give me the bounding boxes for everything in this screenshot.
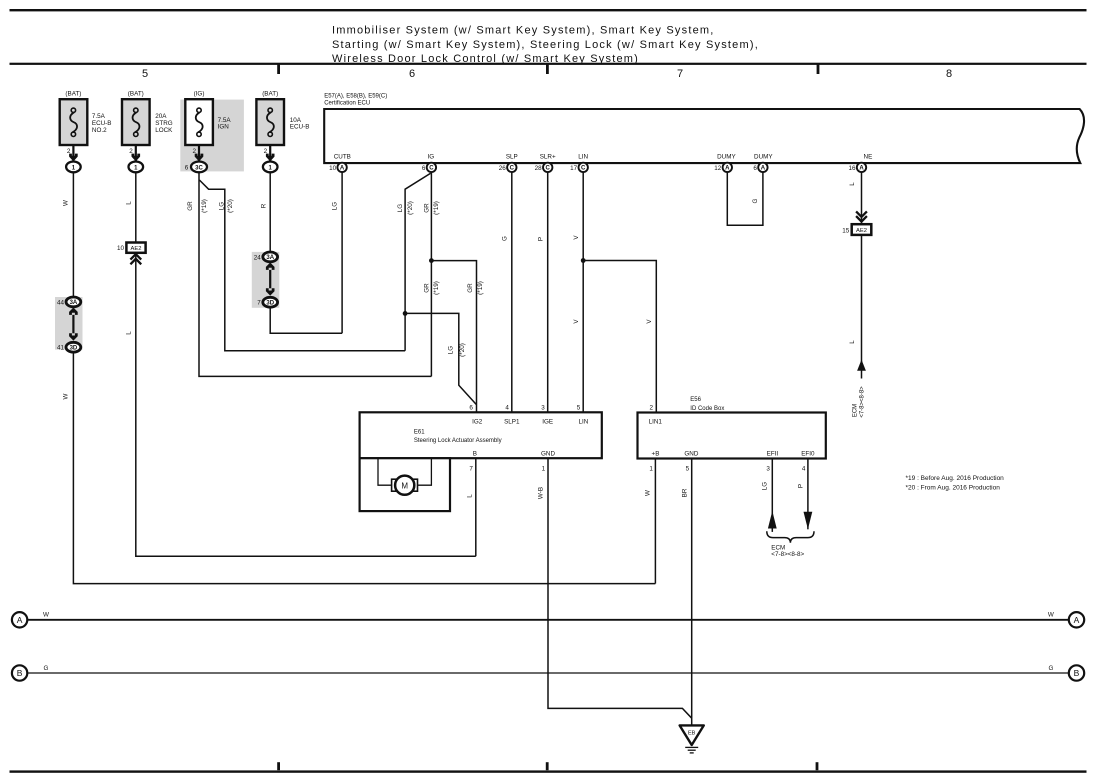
svg-text:B: B bbox=[473, 450, 477, 457]
page top border bbox=[10, 9, 1087, 11]
svg-text:LIN: LIN bbox=[578, 154, 588, 161]
svg-text:(*19): (*19) bbox=[477, 281, 484, 295]
grid ruler bbox=[10, 63, 1087, 80]
wire LG from E56 EFII pin 3 to ECM bbox=[762, 459, 777, 532]
svg-text:G: G bbox=[44, 665, 49, 672]
svg-text:A: A bbox=[859, 166, 864, 172]
svg-text:*20 : From Aug. 2016 Productio: *20 : From Aug. 2016 Production bbox=[906, 485, 1001, 492]
svg-text:LG: LG bbox=[448, 346, 455, 355]
svg-text:10: 10 bbox=[117, 245, 125, 252]
svg-text:(BAT): (BAT) bbox=[65, 91, 81, 98]
svg-text:P: P bbox=[797, 484, 804, 488]
svg-text:G: G bbox=[501, 236, 508, 241]
svg-text:7: 7 bbox=[677, 68, 683, 80]
fuse F3 7.5A IGN (IG) bbox=[185, 91, 231, 145]
svg-text:W: W bbox=[1048, 612, 1054, 619]
svg-text:IG: IG bbox=[427, 154, 434, 161]
svg-text:GR: GR bbox=[423, 203, 430, 213]
svg-text:(*19): (*19) bbox=[201, 199, 208, 213]
svg-text:16: 16 bbox=[848, 165, 856, 172]
svg-text:W: W bbox=[63, 393, 70, 399]
E56 pin labels bbox=[649, 405, 815, 473]
junction LG branch to IG2 bbox=[403, 311, 477, 405]
page bottom border bbox=[10, 762, 1087, 773]
svg-text:3D: 3D bbox=[70, 346, 78, 352]
svg-text:P: P bbox=[537, 237, 544, 241]
svg-text:Starting (w/ Smart Key System): Starting (w/ Smart Key System), Steering… bbox=[332, 39, 759, 51]
svg-text:(*20): (*20) bbox=[459, 343, 466, 357]
svg-text:3A: 3A bbox=[70, 300, 78, 306]
wire L from AE2 to ECM (off page arrow) bbox=[849, 235, 866, 418]
svg-text:6: 6 bbox=[422, 165, 426, 172]
junction GR branch to IG2 bbox=[429, 258, 484, 412]
svg-text:A: A bbox=[340, 166, 345, 172]
svg-text:SLP: SLP bbox=[506, 154, 518, 161]
junction V branch to ID code box LIN1 bbox=[581, 258, 657, 413]
svg-text:10: 10 bbox=[329, 165, 337, 172]
svg-text:5: 5 bbox=[686, 466, 690, 473]
svg-text:L: L bbox=[466, 494, 473, 498]
svg-text:28: 28 bbox=[535, 165, 543, 172]
svg-text:IG2: IG2 bbox=[472, 418, 483, 425]
svg-text:C: C bbox=[581, 166, 586, 172]
svg-text:BR: BR bbox=[681, 488, 688, 497]
ID code box E56 bbox=[638, 397, 826, 458]
svg-text:1: 1 bbox=[542, 465, 546, 472]
certification ECU box E57(A) E58(B) E59(C) bbox=[324, 93, 1084, 163]
svg-text:AE2: AE2 bbox=[856, 228, 867, 234]
wire L from AE2 down to steering lock B wire bbox=[126, 253, 476, 556]
svg-text:(IG): (IG) bbox=[194, 91, 205, 98]
connector pair 44 3A / 41 3D on wire W bbox=[55, 297, 83, 352]
svg-text:6: 6 bbox=[185, 164, 189, 171]
svg-text:L: L bbox=[849, 182, 856, 186]
wire L from NE pin down bbox=[849, 172, 867, 224]
svg-text:C: C bbox=[510, 166, 515, 172]
svg-text:LG: LG bbox=[762, 482, 769, 491]
svg-text:A: A bbox=[1074, 615, 1080, 625]
svg-text:6: 6 bbox=[469, 405, 473, 412]
E61 pin labels bottom bbox=[469, 450, 555, 472]
wire R from 3D joining CUTB wire bbox=[270, 307, 342, 333]
gray highlight panel around fuse F3 bbox=[180, 100, 244, 172]
wire W from E56 +B pin 1 bbox=[644, 459, 655, 584]
svg-text:L: L bbox=[126, 201, 133, 205]
svg-text:LG: LG bbox=[397, 204, 404, 213]
title text bbox=[332, 25, 759, 66]
svg-text:NO.2: NO.2 bbox=[92, 127, 107, 134]
svg-text:3D: 3D bbox=[266, 301, 274, 307]
ground EB bbox=[680, 725, 704, 753]
connector AE2 pin 15 on wire L bbox=[842, 224, 871, 235]
wire G between DUMY pins bbox=[727, 172, 763, 225]
wire L from fuse F2 down bbox=[126, 172, 136, 242]
svg-text:G: G bbox=[752, 198, 759, 203]
svg-text:15: 15 bbox=[842, 227, 850, 234]
connector AE2 pin 10 on wire L bbox=[117, 243, 146, 265]
svg-text:ID Code Box: ID Code Box bbox=[690, 406, 724, 412]
svg-text:6: 6 bbox=[753, 165, 757, 172]
wire GR (*19) from IG pin down bbox=[423, 172, 440, 376]
svg-text:4: 4 bbox=[802, 466, 806, 473]
svg-text:LG: LG bbox=[218, 202, 225, 211]
svg-text:3A: 3A bbox=[266, 255, 274, 261]
svg-text:C: C bbox=[546, 166, 551, 172]
svg-text:41: 41 bbox=[57, 345, 65, 352]
svg-text:EB: EB bbox=[688, 731, 696, 737]
svg-text:LOCK: LOCK bbox=[155, 127, 173, 134]
svg-text:ECM: ECM bbox=[852, 404, 858, 417]
svg-text:R: R bbox=[261, 203, 268, 208]
motor sub box of E61 bbox=[360, 458, 450, 511]
ECU pin NE 16(A) bbox=[848, 154, 872, 172]
svg-text:3: 3 bbox=[541, 405, 545, 412]
notes *19 *20 bbox=[906, 475, 1005, 491]
svg-text:(*19): (*19) bbox=[433, 201, 440, 215]
ECU pin DUMY 12(A) bbox=[714, 154, 736, 172]
svg-text:V: V bbox=[573, 319, 580, 324]
svg-text:AE2: AE2 bbox=[131, 246, 142, 252]
svg-text:A: A bbox=[17, 615, 23, 625]
svg-text:NE: NE bbox=[864, 154, 873, 161]
svg-text:5: 5 bbox=[142, 68, 148, 80]
ECU pin CUTB 10(A) bbox=[329, 154, 351, 172]
fuse F2 20A STRG LOCK (BAT) bbox=[122, 91, 173, 145]
wire GR (*19) from fuse F3 to junction with certification ECU IG bbox=[187, 172, 431, 376]
svg-text:B: B bbox=[1074, 668, 1080, 678]
svg-text:<7-8><8-8>: <7-8><8-8> bbox=[859, 386, 865, 418]
svg-text:Certification ECU: Certification ECU bbox=[324, 100, 370, 106]
svg-text:GR: GR bbox=[187, 201, 194, 211]
svg-text:(*20): (*20) bbox=[227, 199, 234, 213]
svg-text:W: W bbox=[63, 200, 70, 206]
ECU pin SLR+ 28(C) bbox=[535, 154, 556, 172]
svg-text:<7-8><8-8>: <7-8><8-8> bbox=[771, 551, 804, 558]
svg-text:G: G bbox=[1048, 665, 1053, 672]
svg-text:8: 8 bbox=[946, 68, 952, 80]
wire G from SLP to SLP1 bbox=[501, 172, 511, 412]
svg-text:6: 6 bbox=[409, 68, 415, 80]
svg-text:3C: 3C bbox=[195, 165, 203, 171]
wire W from fuse F1 down bbox=[63, 172, 74, 297]
svg-text:SLP1: SLP1 bbox=[504, 418, 520, 425]
svg-text:A: A bbox=[725, 166, 730, 172]
svg-text:GR: GR bbox=[467, 283, 474, 293]
wire LG (*20) branch from fuse F3 bbox=[199, 180, 405, 351]
svg-text:DUMY: DUMY bbox=[754, 154, 773, 161]
fuse F3 output pin 2 wire and arrow bbox=[192, 145, 203, 162]
svg-text:W-B: W-B bbox=[537, 487, 544, 499]
wire BR from E56 GND pin 5 to ground bbox=[681, 459, 691, 726]
svg-text:17: 17 bbox=[570, 165, 578, 172]
svg-text:LIN1: LIN1 bbox=[649, 419, 663, 426]
svg-text:GND: GND bbox=[541, 450, 555, 457]
svg-text:7: 7 bbox=[469, 465, 473, 472]
wire W from 3D to +B of ID code box bbox=[63, 352, 656, 583]
ECU pin LIN 17(C) bbox=[570, 154, 588, 172]
wire P from SLR+ to IGE bbox=[537, 172, 547, 412]
svg-text:24: 24 bbox=[254, 254, 262, 261]
svg-text:*19 : Before Aug. 2016 Product: *19 : Before Aug. 2016 Production bbox=[906, 475, 1005, 482]
svg-text:E56: E56 bbox=[690, 397, 701, 403]
fuse F4 10A ECU-B (BAT) bbox=[256, 91, 309, 145]
svg-text:EFII: EFII bbox=[767, 451, 779, 458]
svg-text:SLR+: SLR+ bbox=[540, 154, 556, 161]
svg-text:W: W bbox=[43, 612, 49, 619]
svg-text:CUTB: CUTB bbox=[334, 154, 351, 161]
ECU pin IG 6(C) bbox=[422, 154, 436, 172]
fuse F2 output pin 2 wire and arrow bbox=[129, 145, 140, 162]
wire V from LIN to E61 LIN bbox=[573, 172, 583, 412]
svg-text:GR: GR bbox=[423, 283, 430, 293]
svg-text:C: C bbox=[429, 166, 434, 172]
svg-text:GND: GND bbox=[684, 451, 698, 458]
svg-text:LG: LG bbox=[331, 202, 338, 211]
connector 1 below fuse F2 bbox=[129, 162, 144, 173]
fuse F1 7.5A ECU-B NO.2 (BAT) bbox=[60, 91, 112, 145]
svg-text:(BAT): (BAT) bbox=[262, 91, 278, 98]
fuse F1 output pin 2 wire and arrow bbox=[67, 145, 78, 162]
svg-text:(*19): (*19) bbox=[433, 281, 440, 295]
wire R from fuse F4 down bbox=[261, 172, 271, 252]
svg-text:3: 3 bbox=[766, 466, 770, 473]
svg-text:Immobiliser System (w/ Smart K: Immobiliser System (w/ Smart Key System)… bbox=[332, 25, 715, 37]
wire L from E61 B pin 7 bbox=[466, 458, 476, 556]
svg-text:(*20): (*20) bbox=[407, 201, 414, 215]
svg-text:12: 12 bbox=[714, 165, 722, 172]
svg-text:44: 44 bbox=[57, 299, 65, 306]
connector pair 24 3A / 7 3D on wire R bbox=[252, 252, 279, 308]
connector 1 below fuse F1 bbox=[66, 162, 81, 173]
svg-text:IGE: IGE bbox=[542, 418, 553, 425]
svg-text:ECU-B: ECU-B bbox=[290, 124, 310, 131]
svg-text:E61: E61 bbox=[414, 429, 425, 435]
svg-text:M: M bbox=[401, 481, 408, 490]
E61 pin labels top bbox=[469, 405, 588, 426]
svg-text:L: L bbox=[126, 331, 133, 335]
connector 3C pin 6 below fuse F3 bbox=[185, 162, 207, 173]
bus line A bbox=[12, 612, 1084, 628]
svg-text:V: V bbox=[573, 235, 580, 240]
brace ECM label bbox=[767, 531, 814, 558]
fuse F4 output pin 2 wire and arrow bbox=[264, 145, 275, 162]
wire LG from CUTB pin to R wire bbox=[331, 172, 342, 333]
steering lock actuator assembly box E61 bbox=[360, 412, 602, 458]
svg-text:L: L bbox=[849, 340, 856, 344]
svg-text:Steering Lock Actuator Assembl: Steering Lock Actuator Assembly bbox=[414, 438, 502, 444]
svg-text:A: A bbox=[761, 166, 766, 172]
svg-text:2: 2 bbox=[649, 405, 653, 412]
svg-text:26: 26 bbox=[499, 165, 507, 172]
connector 1 below fuse F4 bbox=[263, 162, 278, 173]
ECU pin SLP 26(C) bbox=[499, 154, 518, 172]
svg-text:IGN: IGN bbox=[218, 124, 230, 131]
svg-text:1: 1 bbox=[649, 466, 653, 473]
svg-text:(BAT): (BAT) bbox=[128, 91, 144, 98]
svg-text:W: W bbox=[644, 490, 651, 496]
motor M bbox=[392, 476, 418, 495]
wire W-B from E61 GND pin 1 to ground bbox=[537, 458, 691, 718]
svg-text:5: 5 bbox=[577, 405, 581, 412]
svg-text:EFI0: EFI0 bbox=[801, 451, 815, 458]
svg-text:V: V bbox=[646, 319, 653, 324]
svg-text:7: 7 bbox=[257, 300, 261, 307]
svg-text:+B: +B bbox=[652, 451, 660, 458]
wire P from E56 EFI0 pin 4 to ECM bbox=[797, 459, 812, 530]
wire LG (*20) diagonal from IG pin bbox=[397, 173, 431, 350]
bus line B bbox=[12, 665, 1084, 681]
ECU pin DUMY 6(A) bbox=[753, 154, 773, 172]
svg-text:DUMY: DUMY bbox=[717, 154, 736, 161]
svg-text:4: 4 bbox=[505, 405, 509, 412]
svg-text:E57(A), E58(B), E59(C): E57(A), E58(B), E59(C) bbox=[324, 93, 387, 99]
svg-text:LIN: LIN bbox=[578, 418, 588, 425]
svg-text:B: B bbox=[17, 668, 23, 678]
